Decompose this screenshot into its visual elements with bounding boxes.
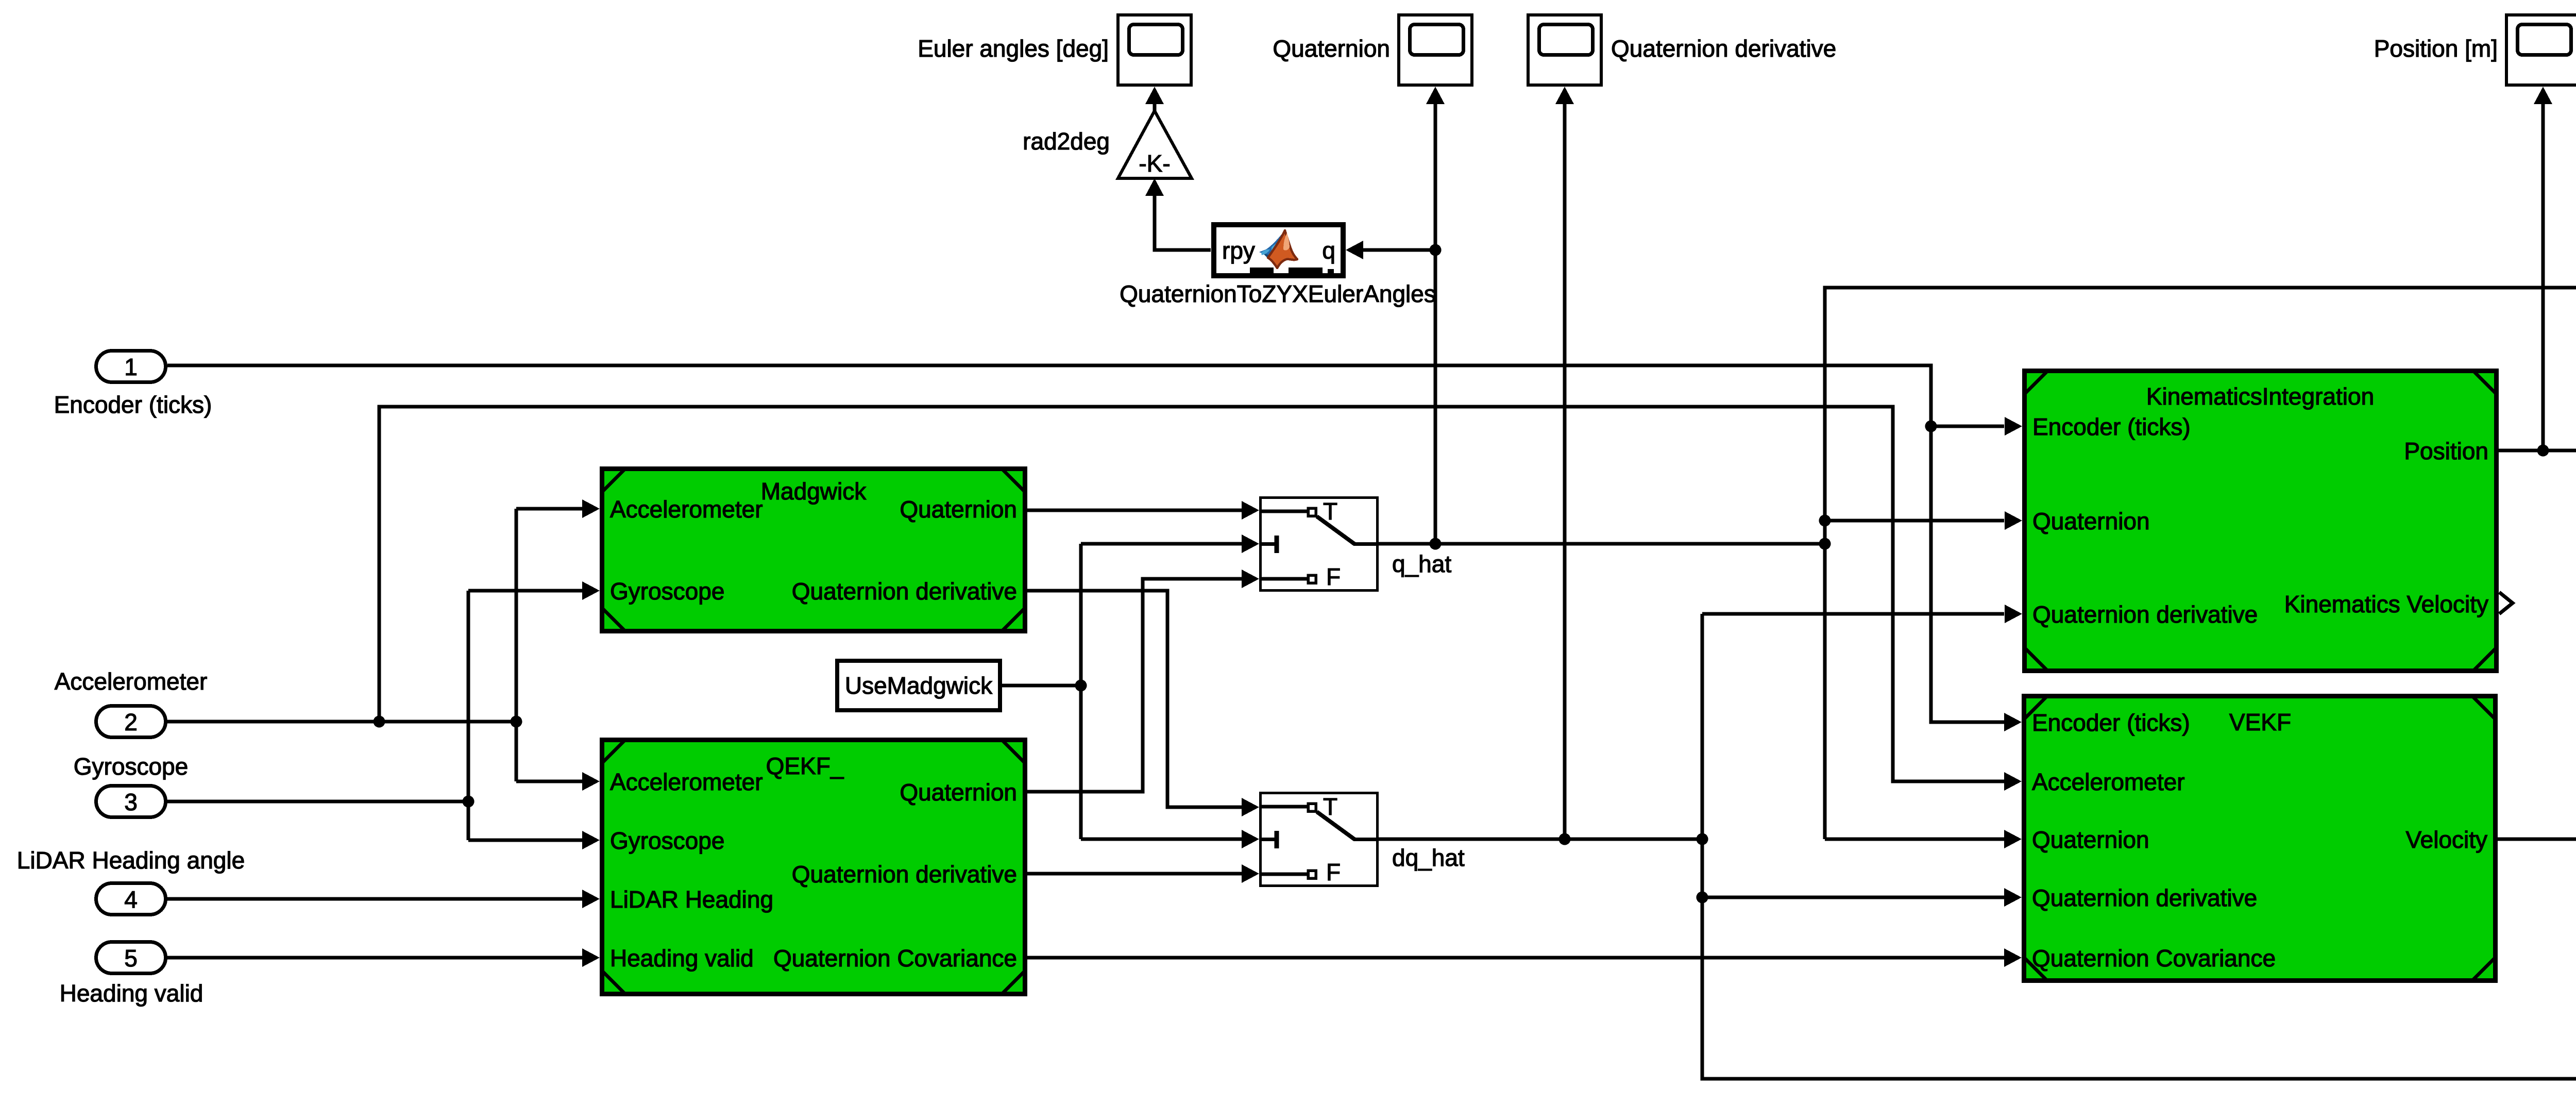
subsystem VEKF	[2024, 696, 2496, 981]
svg-text:Quaternion Covariance: Quaternion Covariance	[773, 945, 1017, 972]
svg-text:Quaternion derivative: Quaternion derivative	[2032, 601, 2258, 628]
wire LiDAR Heading angle port4 to QEKF	[167, 890, 600, 908]
svg-text:Velocity: Velocity	[2405, 826, 2487, 853]
net dq_hat : Switch2 out to scope, KinematicsIntegration, VEKF, mux	[1379, 87, 2576, 1079]
svg-text:q_hat: q_hat	[1392, 550, 1451, 577]
svg-text:Quaternion: Quaternion	[1273, 35, 1390, 62]
svg-text:Quaternion: Quaternion	[2032, 508, 2150, 534]
svg-text:5: 5	[124, 945, 138, 972]
wire MATLAB function rpy out to rad2deg gain to Euler scope	[1145, 87, 1211, 250]
unconnected output port Kinematics Velocity chevron	[2499, 592, 2513, 614]
svg-text:3: 3	[124, 789, 138, 815]
subsystem KinematicsIntegration	[2024, 371, 2497, 671]
svg-text:Accelerometer: Accelerometer	[610, 496, 763, 523]
svg-text:Gyroscope: Gyroscope	[610, 827, 724, 854]
wire Madgwick Quaternion derivative out to Switch2 T	[1027, 591, 1259, 816]
net q_hat : Switch1 out to scopes, KinematicsIntegration, VEKF, mux	[1346, 87, 2576, 848]
wire Madgwick Quaternion out to Switch1 T	[1027, 501, 1259, 520]
svg-text:rpy: rpy	[1222, 237, 1255, 264]
svg-text:LiDAR Heading angle: LiDAR Heading angle	[17, 847, 245, 874]
svg-text:LiDAR Heading: LiDAR Heading	[610, 886, 773, 913]
svg-text:Encoder (ticks): Encoder (ticks)	[2032, 709, 2190, 736]
svg-text:4: 4	[124, 886, 138, 913]
svg-text:Encoder (ticks): Encoder (ticks)	[2032, 413, 2191, 440]
svg-text:Encoder (ticks): Encoder (ticks)	[54, 391, 212, 418]
svg-text:1: 1	[124, 354, 138, 380]
svg-text:Euler angles [deg]: Euler angles [deg]	[918, 35, 1109, 62]
wire KinematicsIntegration Position to scope and mux xy_hat	[2499, 87, 2576, 541]
scope Quaternion derivative	[1528, 15, 1836, 85]
scope Quaternion	[1273, 15, 1472, 85]
svg-text:VEKF: VEKF	[2229, 709, 2291, 736]
svg-text:QuaternionToZYXEulerAngles: QuaternionToZYXEulerAngles	[1120, 280, 1436, 307]
svg-text:Position [m]: Position [m]	[2374, 35, 2498, 62]
svg-text:Kinematics Velocity: Kinematics Velocity	[2284, 591, 2488, 617]
wire QEKF Quaternion Covariance to VEKF	[1027, 948, 2022, 967]
svg-text:Quaternion Covariance: Quaternion Covariance	[2032, 945, 2276, 972]
svg-text:Accelerometer: Accelerometer	[2032, 768, 2185, 795]
gain rad2deg -K- triangle	[1023, 111, 1192, 178]
wire Gyroscope port3 to Madgwick/QEKF	[167, 581, 600, 849]
svg-text:2: 2	[124, 709, 138, 736]
subsystem QEKF_	[602, 740, 1025, 994]
svg-text:Gyroscope: Gyroscope	[610, 578, 724, 605]
MATLAB function block QuaternionToZYXEulerAngles	[1120, 225, 1436, 307]
svg-text:Accelerometer: Accelerometer	[610, 768, 763, 795]
wire Accelerometer port2 to Madgwick/QEKF/VEKF	[167, 407, 2022, 791]
svg-text:Quaternion derivative: Quaternion derivative	[792, 578, 1017, 605]
svg-text:Quaternion derivative: Quaternion derivative	[1611, 35, 1836, 62]
svg-text:KinematicsIntegration: KinematicsIntegration	[2146, 383, 2374, 410]
svg-text:T: T	[1323, 793, 1337, 820]
svg-text:Quaternion: Quaternion	[900, 496, 1017, 523]
wire QEKF Quaternion out to Switch1 F	[1027, 570, 1259, 792]
svg-text:Quaternion derivative: Quaternion derivative	[792, 861, 1017, 888]
constant UseMadgwick	[837, 661, 1000, 710]
svg-text:-K-: -K-	[1139, 150, 1170, 177]
svg-text:Quaternion derivative: Quaternion derivative	[2032, 884, 2257, 911]
svg-text:q: q	[1322, 237, 1335, 264]
inport 5 Heading valid	[60, 942, 204, 1007]
wire QEKF Quaternion derivative out to Switch2 F	[1027, 864, 1259, 883]
svg-text:Accelerometer: Accelerometer	[55, 668, 208, 695]
svg-text:QEKF_: QEKF_	[766, 753, 844, 779]
wire Encoder(ticks) port1 to KinematicsIntegration and VEKF	[167, 365, 2022, 731]
inport 4 LiDAR Heading angle	[17, 847, 245, 915]
wire VEKF Velocity to scope and mux dxy_hat	[2498, 87, 2576, 845]
svg-text:dq_hat: dq_hat	[1392, 844, 1465, 871]
inport 2 Accelerometer	[55, 668, 208, 738]
svg-text:Quaternion: Quaternion	[2032, 826, 2149, 853]
svg-text:Heading valid: Heading valid	[610, 945, 754, 972]
svg-text:rad2deg: rad2deg	[1023, 128, 1110, 155]
scope Position [m]	[2374, 15, 2576, 85]
switch Switch1 (q_hat select)	[1259, 498, 1379, 591]
inport 3 Gyroscope	[74, 753, 188, 817]
inport 1 Encoder (ticks)	[54, 351, 212, 419]
switch Switch2 (dq_hat select)	[1259, 793, 1379, 886]
svg-text:UseMadgwick: UseMadgwick	[845, 672, 993, 699]
svg-text:Gyroscope: Gyroscope	[74, 753, 188, 780]
wire Heading valid port5 to QEKF	[167, 948, 600, 967]
svg-text:T: T	[1323, 498, 1337, 525]
svg-text:F: F	[1326, 563, 1341, 590]
svg-text:F: F	[1326, 859, 1341, 885]
wire UseMadgwick to Switch1/Switch2 control	[1002, 534, 1259, 848]
svg-text:Quaternion: Quaternion	[900, 779, 1017, 806]
scope Euler angles [deg]	[918, 15, 1191, 85]
subsystem Madgwick	[602, 469, 1025, 631]
svg-text:Heading valid: Heading valid	[60, 980, 204, 1007]
svg-text:Madgwick: Madgwick	[761, 478, 867, 505]
svg-text:Position: Position	[2404, 438, 2488, 464]
